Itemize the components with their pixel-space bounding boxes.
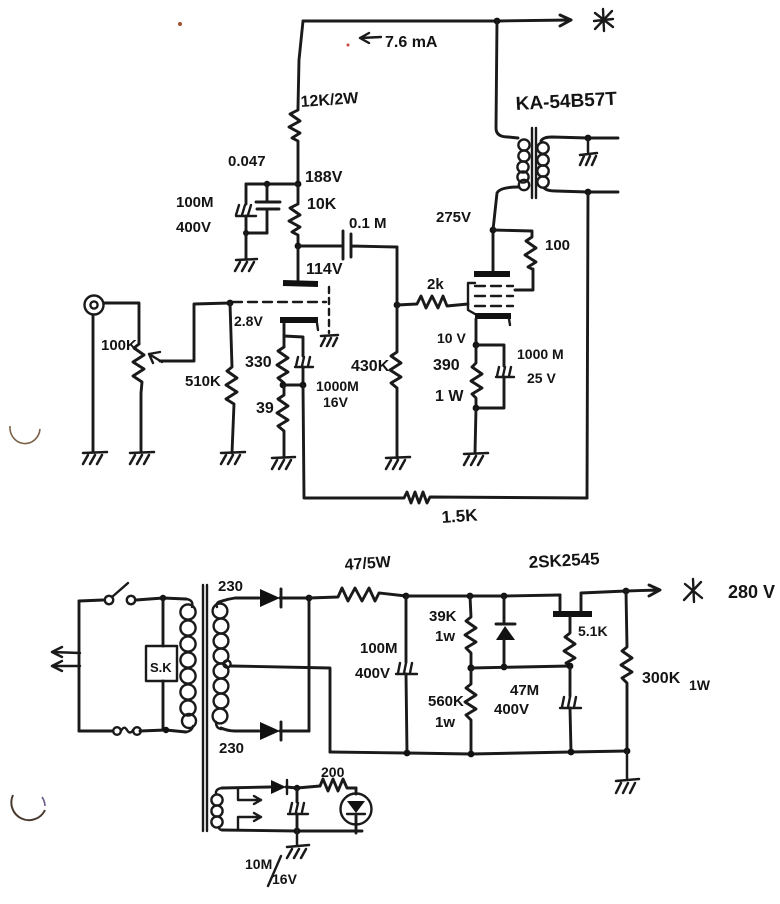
transformer PT secondary coil [213, 601, 229, 729]
svg-text:230: 230 [218, 578, 243, 595]
svg-text:0.1 M: 0.1 M [349, 215, 387, 232]
node cathode bottom [473, 405, 480, 453]
wire OT secondary bottom [544, 188, 618, 192]
node 275V [436, 209, 496, 233]
triode V1 [233, 246, 329, 347]
potentiometer 100K [101, 303, 230, 452]
star symbol top [594, 9, 613, 31]
transformer OT primary coil [517, 139, 529, 190]
capacitor 47M 400V [494, 666, 581, 752]
resistor 510K [185, 303, 237, 453]
node SK top [160, 595, 166, 601]
wire B+ top rail [303, 15, 571, 26]
node heater cap bottom [294, 828, 301, 835]
svg-text:100M: 100M [176, 194, 214, 211]
wire secondary down feedback [587, 192, 588, 498]
svg-text:7.6 mA: 7.6 mA [385, 34, 438, 51]
resistor 100 screen [493, 230, 570, 269]
svg-text:47/5W: 47/5W [344, 554, 392, 574]
transformer OT core [532, 128, 536, 198]
resistor 560K 1W [428, 668, 476, 754]
LED pilot [341, 788, 372, 833]
ground 430K [386, 457, 410, 469]
svg-text:10K: 10K [307, 196, 337, 213]
hole punch top [10, 426, 40, 444]
svg-text:100: 100 [545, 237, 570, 254]
wire rectifier join [306, 595, 313, 731]
resistor 430K [351, 305, 401, 458]
node coupling out [394, 302, 401, 309]
wire plug bottom [79, 730, 113, 733]
node SK bottom [163, 727, 169, 733]
svg-text:0.047: 0.047 [228, 153, 266, 170]
zener diode [496, 593, 515, 671]
ground heater [287, 831, 309, 858]
capacitor 10M/16V [245, 788, 308, 887]
wire 188V node left [246, 183, 298, 186]
wire rail to OT primary [496, 21, 518, 138]
svg-text:510K: 510K [185, 373, 221, 390]
fuse bottom [113, 727, 186, 735]
ground 510K [221, 452, 245, 464]
transformer OT secondary coil [537, 142, 548, 187]
resistor 390 1W [433, 345, 482, 408]
ground 39 [272, 457, 295, 469]
wire secondary top to diode [222, 598, 259, 601]
resistor 39K 1W [429, 593, 476, 668]
wire to coupling cap [298, 245, 341, 248]
ground V2 cathode [464, 453, 488, 465]
svg-text:188V: 188V [305, 169, 343, 186]
diode D2 [260, 722, 309, 740]
wire heater bottom [222, 830, 362, 831]
svg-text:1000M: 1000M [316, 378, 359, 394]
svg-text:275V: 275V [436, 209, 471, 226]
svg-text:39K: 39K [429, 608, 457, 625]
switch mains [105, 583, 186, 604]
svg-text:390: 390 [433, 357, 460, 374]
wire B+ out with arrow [623, 585, 660, 596]
svg-text:2k: 2k [427, 276, 444, 293]
svg-text:16V: 16V [323, 394, 349, 410]
svg-text:1w: 1w [435, 714, 455, 731]
diode D3 heater [271, 780, 320, 794]
svg-text:39: 39 [256, 400, 274, 417]
svg-text:5.1K: 5.1K [578, 623, 608, 639]
ground main [616, 751, 639, 793]
speck pink [347, 44, 350, 47]
hole punch bottom [11, 795, 45, 820]
svg-text:400V: 400V [355, 665, 390, 682]
wire rail mid [406, 595, 560, 596]
node secondary bottom [585, 189, 592, 196]
transformer heater winding [211, 788, 222, 830]
AC plug prongs [52, 601, 80, 731]
svg-text:430K: 430K [351, 358, 390, 375]
ground jack [83, 452, 107, 464]
resistor 300K 1W [621, 591, 711, 752]
resistor 39 [256, 385, 288, 457]
resistor 10K [289, 184, 337, 245]
node 114V plate [295, 243, 343, 278]
resistor 47/5W [309, 554, 406, 601]
svg-text:280 V: 280 V [728, 582, 775, 602]
capacitor 0.047 [228, 153, 280, 233]
node cathode junction [280, 382, 307, 389]
capacitor 100M 400V main filter [355, 593, 417, 753]
svg-text:400V: 400V [176, 219, 211, 236]
wire OT primary bottom [493, 187, 519, 230]
svg-text:230: 230 [219, 740, 244, 757]
capacitor 1000M 16V [284, 336, 359, 410]
wire secondary bottom to diode [221, 728, 259, 731]
svg-text:16V: 16V [272, 871, 298, 887]
wire screen to 100 [515, 269, 533, 290]
wire coupling corner [396, 247, 399, 305]
node 188V [295, 169, 343, 187]
svg-text:100M: 100M [360, 640, 398, 657]
svg-text:1 W: 1 W [435, 388, 464, 405]
svg-text:330: 330 [245, 354, 272, 371]
svg-text:1000 M: 1000 M [517, 346, 564, 362]
transformer PT primary coil [180, 599, 196, 732]
svg-text:2SK2545: 2SK2545 [528, 549, 600, 572]
svg-text:1W: 1W [689, 677, 711, 693]
center tap [223, 660, 330, 752]
wire plug top [79, 600, 103, 601]
wire OT secondary top [541, 137, 618, 141]
svg-text:400V: 400V [494, 701, 529, 718]
svg-text:300K: 300K [642, 670, 681, 687]
resistor 330 cathode [245, 347, 288, 386]
capacitor 0.1M coupling [343, 215, 397, 259]
svg-text:100K: 100K [101, 337, 137, 354]
ground caps [235, 259, 257, 271]
svg-text:25 V: 25 V [527, 370, 556, 386]
resistor 2k grid stopper [397, 276, 468, 308]
wire heater top [222, 787, 270, 788]
wire gate node [471, 666, 570, 668]
resistor 5.1K gate [564, 617, 608, 669]
ground pot [130, 452, 154, 464]
svg-text:114V: 114V [306, 261, 343, 278]
node grid V1 [227, 300, 234, 307]
capacitor 1000M 25V [476, 345, 564, 408]
node divider [467, 664, 474, 671]
wire from rail down to 12K [298, 21, 303, 107]
resistor 1.5K feedback [303, 385, 587, 527]
pentode V2 [468, 230, 513, 345]
node cap branch [264, 181, 270, 187]
node cathode V2 [437, 330, 479, 348]
wire ground rail bottom [330, 748, 630, 758]
ground OT secondary [580, 138, 597, 165]
resistor 12K/2W [289, 90, 360, 184]
node B+ junction [494, 18, 501, 25]
diode D1 [260, 589, 309, 607]
wire cap join [243, 230, 267, 259]
svg-text:2.8V: 2.8V [234, 313, 263, 329]
capacitor 100M 400V electrolytic [176, 184, 256, 236]
spark killer S.K box [146, 598, 177, 730]
svg-text:1w: 1w [435, 628, 455, 645]
svg-text:10M: 10M [245, 856, 272, 872]
svg-text:560K: 560K [428, 693, 464, 710]
node secondary top [585, 135, 592, 142]
svg-text:47M: 47M [510, 682, 539, 699]
ground V1 internal shield [321, 335, 338, 346]
svg-text:1.5K: 1.5K [441, 505, 479, 527]
speck red [178, 22, 182, 26]
mosfet 2SK2545 [528, 549, 626, 614]
node heater cap top [294, 785, 300, 791]
svg-text:10 V: 10 V [437, 330, 466, 346]
heater tap arrows [238, 788, 261, 829]
input jack [85, 296, 140, 453]
star symbol bottom [684, 579, 702, 602]
resistor 200 [320, 764, 356, 791]
svg-text:S.K: S.K [150, 660, 172, 675]
transformer PT core [203, 585, 207, 831]
current label 7.6mA with arrow [360, 33, 438, 51]
